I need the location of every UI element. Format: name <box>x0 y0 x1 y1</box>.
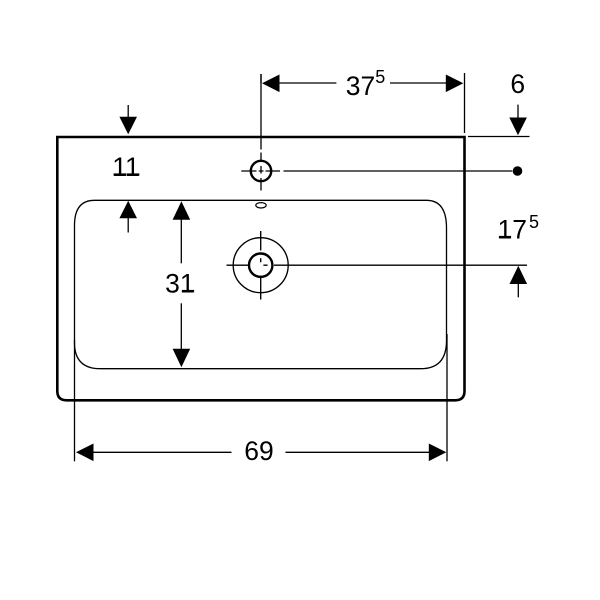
faucet hole centerline vertical <box>260 74 262 191</box>
dim 69 extension line right <box>446 334 448 461</box>
dim 6 arrow tail <box>517 105 519 119</box>
dim 37.5 extension line left <box>260 74 262 83</box>
dim 11 arrow tail top <box>127 105 129 119</box>
faucet hole circle <box>251 161 271 181</box>
dim 6 arrowhead down <box>509 118 527 136</box>
svg-text:5: 5 <box>529 212 539 232</box>
rim top edge extension line right <box>468 136 530 138</box>
dim 37.5 line left segment <box>279 82 336 84</box>
svg-text:17: 17 <box>498 214 527 244</box>
svg-text:69: 69 <box>244 436 273 466</box>
dim 11 arrowhead down <box>119 117 137 135</box>
basin outer rim <box>57 137 464 400</box>
svg-text:5: 5 <box>375 67 385 87</box>
drain centerline horizontal <box>227 264 528 266</box>
faucet hole centerline horizontal <box>241 170 512 172</box>
overflow slot <box>256 203 266 208</box>
inner bowl outline <box>75 200 447 368</box>
dim 11 arrowhead up <box>119 201 137 219</box>
drain centerline vertical <box>260 231 262 300</box>
dim 69 line left segment <box>92 451 232 453</box>
dim 31 arrowhead down <box>173 349 191 368</box>
svg-text:11: 11 <box>112 152 140 182</box>
dim 69 extension line left <box>74 340 76 461</box>
faucet axis dot marker <box>513 166 523 176</box>
dim 17.5 arrowhead up <box>510 266 528 284</box>
dim 11 arrow tail bottom <box>127 217 129 233</box>
dim 17.5 arrow tail <box>517 284 519 298</box>
drain outer circle <box>233 238 288 293</box>
dim 69 line right segment <box>286 451 430 453</box>
dim 69 arrowhead left <box>76 444 94 462</box>
dim 69 arrowhead right <box>429 444 447 462</box>
dim 37.5 arrowhead right <box>446 75 464 93</box>
dim 31 arrowhead up <box>173 201 191 220</box>
dim 31 line lower <box>180 303 182 351</box>
drain inner circle <box>249 254 272 277</box>
dim 37.5 arrowhead left <box>262 75 280 93</box>
dim 37.5 extension line right <box>464 73 466 133</box>
svg-text:6: 6 <box>510 69 525 99</box>
svg-text:31: 31 <box>165 268 194 298</box>
dim 37.5 line right segment <box>390 82 447 84</box>
dim 31 line upper <box>180 218 182 263</box>
svg-text:37: 37 <box>346 71 375 101</box>
